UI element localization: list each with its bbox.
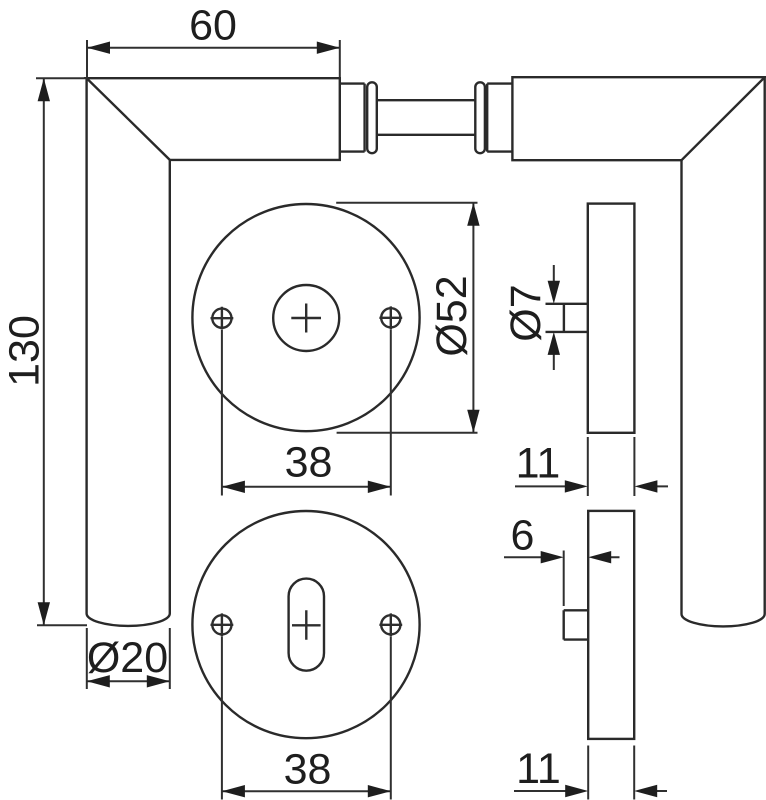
dim 11 bottom lines <box>514 790 667 792</box>
left neck <box>340 84 365 152</box>
svg-text:Ø20: Ø20 <box>87 634 168 682</box>
arrowhead 11 bottom right <box>634 785 657 797</box>
dim 52 extension lines <box>336 203 477 433</box>
dim 130 extension lines <box>36 78 87 625</box>
dim 38 top line <box>222 486 391 488</box>
svg-text:38: 38 <box>285 439 333 487</box>
arrowhead 130 up <box>38 78 50 101</box>
screw bottom-left <box>212 615 231 634</box>
arrowhead 7 up <box>548 332 560 355</box>
svg-text:38: 38 <box>284 746 332 794</box>
screw bottom-right <box>381 615 400 634</box>
keyhole cross <box>292 610 321 640</box>
svg-text:11: 11 <box>516 440 561 488</box>
svg-text:130: 130 <box>1 315 49 387</box>
dim 11 bottom extension lines <box>588 746 634 800</box>
top rosette outer circle <box>192 204 419 431</box>
dim 38 bottom extension lines <box>222 637 391 800</box>
dim 11 top lines <box>515 485 668 487</box>
arrowhead 6 right <box>588 551 611 563</box>
side view top rosette profile <box>588 204 635 433</box>
arrowhead 7 down <box>548 281 560 304</box>
screw top-left <box>212 309 231 328</box>
arrowhead 130 down <box>38 602 50 625</box>
arrowhead 38 top left <box>222 481 245 493</box>
key rosette outer circle <box>192 511 419 738</box>
dim 6 extension line <box>563 551 565 607</box>
svg-text:11: 11 <box>516 745 561 793</box>
dim 7 arrow lines <box>553 265 555 370</box>
top rosette center cross <box>291 304 321 333</box>
arrowhead 20 left <box>87 675 110 687</box>
svg-text:Ø7: Ø7 <box>502 284 550 341</box>
arrowhead 38 top right <box>368 481 391 493</box>
left collar <box>367 82 377 153</box>
screw top-right <box>381 308 400 327</box>
spindle <box>377 100 475 135</box>
arrowhead 20 right <box>147 675 170 687</box>
arrowhead 11 top right <box>634 480 657 492</box>
dim 11 top extension lines <box>588 437 635 496</box>
svg-text:6: 6 <box>511 512 535 560</box>
svg-text:60: 60 <box>189 2 237 50</box>
dim 52 line <box>472 203 474 433</box>
dim 38 bottom line <box>222 790 391 792</box>
arrowhead 38 bottom left <box>222 785 245 797</box>
dim 60 extension lines <box>87 40 340 78</box>
side view spindle square (top) <box>546 304 588 332</box>
dim 20 line <box>87 680 170 682</box>
crosses and screws <box>211 304 403 640</box>
dim 130 line <box>43 78 45 625</box>
right neck <box>487 84 512 152</box>
arrowhead 52 up <box>467 203 479 226</box>
dim 20 extension lines <box>87 628 170 689</box>
dim 60 line <box>87 47 340 49</box>
left lever handle body (top view) <box>87 78 340 160</box>
arrowhead 38 bottom right <box>368 785 391 797</box>
arrowhead 6 left <box>541 551 564 563</box>
dim 6 lines <box>504 556 620 558</box>
arrowhead 60 right <box>317 42 340 54</box>
arrowhead 60 left <box>87 42 110 54</box>
right lever handle body (top view) <box>512 77 764 160</box>
svg-text:Ø52: Ø52 <box>428 275 476 356</box>
side view key rosette profile <box>588 511 634 739</box>
arrowhead 11 bottom left <box>565 785 588 797</box>
left grip tube <box>87 78 170 626</box>
keyhole oval <box>289 579 324 671</box>
arrowhead 11 top left <box>565 480 588 492</box>
right grip tube <box>682 77 765 626</box>
arrowhead 52 down <box>467 410 479 433</box>
right collar <box>475 82 485 153</box>
top rosette center circle <box>273 285 339 351</box>
dim 38 top extension lines <box>222 330 391 496</box>
side view key square (bottom) <box>564 610 589 639</box>
